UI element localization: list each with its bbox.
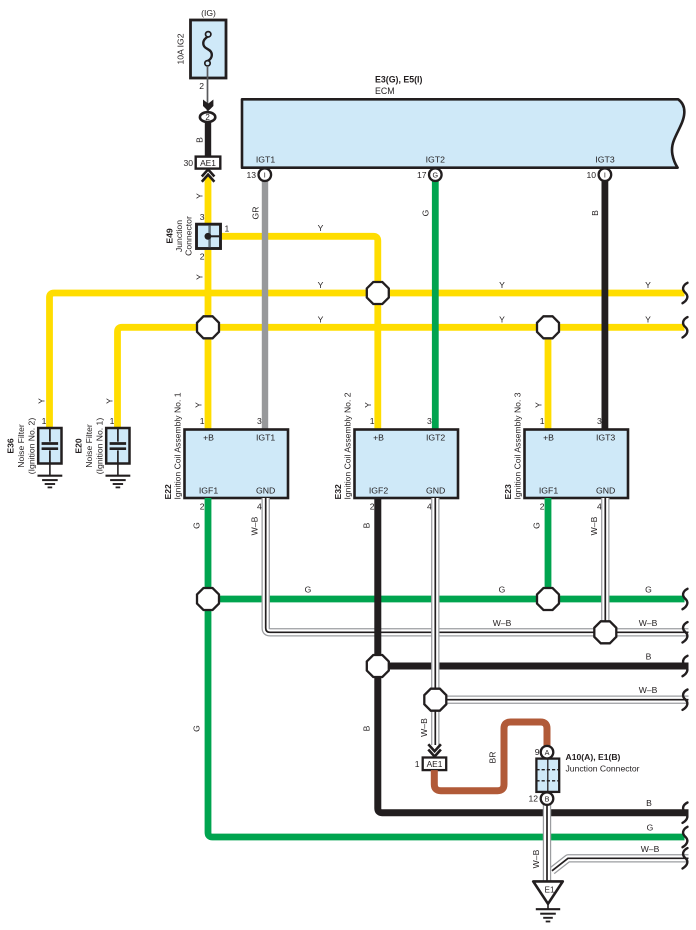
splice on W-B bus2 (424, 689, 446, 711)
svg-text:Y: Y (194, 193, 204, 199)
svg-text:W–B: W–B (639, 685, 658, 695)
A10 pin 12 B (528, 792, 553, 805)
svg-text:IGF2: IGF2 (369, 485, 388, 495)
svg-text:IGT1: IGT1 (256, 433, 275, 443)
svg-text:E36: E36 (6, 438, 16, 454)
svg-text:I: I (604, 171, 606, 180)
fuse 10A IG2 (IG) (176, 8, 227, 78)
wire BR: AE1 -> A10 junction connector (434, 722, 547, 791)
svg-text:1: 1 (370, 416, 375, 426)
svg-text:9: 9 (535, 747, 540, 757)
svg-text:W–B: W–B (493, 618, 512, 628)
noise filter E36 (capacitor, Ignition No. 2) (6, 398, 63, 488)
connector AE1 pin 1 (415, 758, 446, 771)
ECM pin 10 IGT3 (586, 168, 611, 181)
svg-text:30: 30 (183, 158, 193, 168)
svg-text:4: 4 (257, 501, 262, 511)
wire fuse output pin 2 (199, 66, 207, 113)
svg-text:BR: BR (488, 752, 498, 764)
svg-text:(Ignition No. 1): (Ignition No. 1) (95, 418, 105, 475)
wire Y main vertical AE1->E49 pin3 (205, 176, 212, 225)
noise filter E20 (capacitor, Ignition No. 1) (74, 398, 131, 488)
svg-text:I: I (264, 171, 266, 180)
svg-text:GND: GND (426, 485, 445, 495)
svg-text:E3(G), E5(I): E3(G), E5(I) (375, 75, 422, 85)
svg-text:Y: Y (36, 398, 46, 404)
splice on B bus (367, 655, 389, 677)
svg-text:ECM: ECM (375, 86, 395, 96)
wire Y E49 pin2 -> E22 +B (205, 248, 212, 430)
wire W-B: E22 GND down to W-B bus 1 (266, 498, 689, 632)
svg-text:Y: Y (318, 280, 324, 290)
svg-text:3: 3 (200, 212, 205, 222)
double chevron connector (down) above AE1 (428, 744, 441, 751)
in-line connector node 2 (200, 112, 215, 122)
wire G: ECM IGT2 pin 17 -> E32 IGT2 (420, 181, 435, 430)
svg-text:1: 1 (415, 759, 420, 769)
svg-text:B: B (590, 210, 600, 216)
svg-text:A: A (545, 748, 550, 757)
svg-text:B: B (362, 725, 372, 731)
svg-text:E1: E1 (544, 886, 554, 895)
svg-text:2: 2 (200, 252, 205, 262)
svg-text:AE1: AE1 (427, 759, 443, 769)
svg-text:Y: Y (533, 402, 543, 408)
svg-text:A10(A), E1(B): A10(A), E1(B) (566, 752, 621, 762)
svg-text:G: G (305, 585, 312, 595)
svg-text:E49: E49 (165, 228, 175, 244)
svg-text:Y: Y (499, 314, 505, 324)
wire B (battery feed) (194, 123, 208, 158)
svg-text:B: B (545, 795, 550, 804)
wire break (683, 656, 688, 676)
connector AE1 pin 30 (183, 157, 220, 169)
svg-text:IGT3: IGT3 (596, 433, 615, 443)
svg-text:1: 1 (110, 416, 115, 426)
op-amp/ECU block: ECM E3(G), E5(I) (242, 75, 684, 168)
svg-text:17: 17 (417, 170, 427, 180)
svg-text:Y: Y (194, 274, 204, 280)
ignition coil assembly E23 No. 3 (503, 392, 628, 511)
svg-text:IGT2: IGT2 (426, 433, 445, 443)
wire Y feed E23 +B from bus 2 (545, 327, 552, 430)
svg-text:2: 2 (199, 81, 204, 91)
svg-text:+B: +B (543, 433, 554, 443)
svg-text:IGT3: IGT3 (595, 154, 614, 164)
svg-text:2: 2 (540, 501, 545, 511)
wire break (683, 803, 688, 823)
wire W-B bus 3 (diagonal merge) (552, 858, 689, 871)
svg-text:G: G (499, 585, 506, 595)
svg-text:10A IG2: 10A IG2 (176, 33, 186, 64)
wire G: E23 IGF1 down to G bus (545, 498, 552, 599)
ECM pin 17 IGT2 (417, 168, 442, 181)
svg-text:G: G (645, 585, 652, 595)
wire W-B: E23 GND down to W-B bus1 (601, 498, 609, 632)
svg-text:Junction Connector: Junction Connector (566, 764, 640, 774)
svg-text:IGF1: IGF1 (539, 485, 558, 495)
svg-text:10: 10 (586, 170, 596, 180)
svg-text:GR: GR (251, 207, 261, 220)
svg-text:12: 12 (528, 794, 538, 804)
svg-text:1: 1 (540, 416, 545, 426)
svg-text:Connector: Connector (184, 216, 194, 256)
junction connector E49 (165, 193, 230, 280)
double chevron connector (up) below AE1 (202, 169, 215, 176)
splice on bus1 at E32 feed (367, 282, 389, 304)
svg-text:E20: E20 (74, 438, 84, 454)
svg-text:G: G (420, 209, 430, 216)
svg-text:3: 3 (427, 416, 432, 426)
wire break (683, 283, 688, 303)
wire break (683, 827, 688, 847)
svg-text:B: B (646, 651, 652, 661)
junction connector A10(A), E1(B) (536, 752, 639, 792)
svg-text:(IG): (IG) (201, 8, 216, 18)
svg-text:G: G (647, 823, 654, 833)
svg-text:G: G (433, 171, 439, 180)
svg-text:1: 1 (42, 416, 47, 426)
svg-text:W–B: W–B (249, 516, 259, 535)
svg-text:Ignition Coil Assembly No. 2: Ignition Coil Assembly No. 2 (343, 392, 353, 499)
svg-text:B: B (194, 137, 204, 143)
svg-text:Junction: Junction (174, 220, 184, 252)
splice on G bus at E22 (197, 588, 219, 610)
ignition coil assembly E32 No. 2 (333, 392, 458, 511)
svg-text:IGT1: IGT1 (256, 154, 275, 164)
svg-text:1: 1 (225, 224, 230, 234)
svg-text:GND: GND (256, 485, 275, 495)
svg-text:G: G (192, 522, 202, 529)
svg-text:B: B (362, 522, 372, 528)
svg-text:Noise Filter: Noise Filter (16, 424, 26, 468)
wire break (683, 690, 688, 710)
splice on G bus at E23 (537, 588, 559, 610)
svg-text:2: 2 (370, 501, 375, 511)
svg-text:2: 2 (200, 501, 205, 511)
wire G: E22 IGF1 down and bottom G bus (208, 498, 685, 837)
svg-text:Y: Y (499, 280, 505, 290)
wire W-B: E32 GND down to AE1 (431, 498, 439, 745)
svg-text:+B: +B (203, 433, 214, 443)
svg-text:3: 3 (597, 416, 602, 426)
wire Y lateral E49 pin1 -> E32 +B (220, 236, 378, 430)
svg-text:1: 1 (200, 416, 205, 426)
svg-text:3: 3 (257, 416, 262, 426)
svg-text:W–B: W–B (641, 844, 660, 854)
splice on bus2 at E22 feed (197, 316, 219, 338)
ECM pin 13 IGT1 (246, 168, 271, 181)
wire W-B: A10 pin 12 -> E1 ground (531, 805, 547, 882)
A10 pin 9 A (535, 746, 554, 759)
svg-text:W–B: W–B (639, 618, 658, 628)
svg-text:B: B (646, 798, 652, 808)
svg-text:W–B: W–B (531, 849, 541, 868)
ground (E36) (49, 464, 51, 476)
svg-text:+B: +B (373, 433, 384, 443)
svg-text:Y: Y (318, 223, 324, 233)
svg-text:Y: Y (318, 314, 324, 324)
connector arrow (male) (204, 101, 213, 111)
wire W-B bus 2 (splice to right) (435, 696, 688, 704)
svg-text:IGT2: IGT2 (426, 154, 445, 164)
wire Y bus 2 (to E20) (118, 327, 685, 429)
wire break (683, 317, 688, 337)
wire break (683, 848, 688, 868)
ground E1 (533, 881, 563, 921)
splice on W-B bus1 at E23 (594, 621, 616, 643)
svg-text:13: 13 (246, 170, 256, 180)
svg-text:AE1: AE1 (200, 158, 216, 168)
svg-text:G: G (192, 725, 202, 732)
svg-text:W–B: W–B (419, 718, 429, 737)
svg-text:Ignition Coil Assembly No. 3: Ignition Coil Assembly No. 3 (513, 392, 523, 499)
wire Y bus 1 (to E36) (50, 293, 685, 429)
svg-text:Y: Y (645, 314, 651, 324)
splice on bus2 at E23 feed (537, 316, 559, 338)
wire G bus (splice to right) (208, 596, 685, 603)
wire break (683, 622, 688, 642)
svg-text:Y: Y (193, 402, 203, 408)
wire B bus (splice to right) (378, 663, 689, 670)
svg-text:Y: Y (363, 402, 373, 408)
svg-text:(Ignition No. 2): (Ignition No. 2) (27, 418, 37, 475)
wire break (683, 589, 688, 609)
svg-text:G: G (532, 522, 542, 529)
svg-text:Y: Y (645, 280, 651, 290)
svg-text:IGF1: IGF1 (199, 485, 218, 495)
svg-text:2: 2 (205, 113, 210, 122)
svg-text:W–B: W–B (589, 516, 599, 535)
svg-text:Y: Y (104, 398, 114, 404)
wire B: E32 IGF2 down and bottom B bus (378, 498, 689, 813)
ground (E20) (117, 464, 119, 476)
wire GR: ECM IGT1 pin 13 -> E22 IGT1 (251, 181, 266, 430)
wire B: ECM IGT3 pin 10 -> E23 IGT3 (590, 181, 605, 430)
svg-text:Noise Filter: Noise Filter (84, 424, 94, 468)
svg-text:GND: GND (596, 485, 615, 495)
ignition coil assembly E22 No. 1 (163, 392, 288, 511)
svg-text:Ignition Coil Assembly No. 1: Ignition Coil Assembly No. 1 (173, 392, 183, 499)
